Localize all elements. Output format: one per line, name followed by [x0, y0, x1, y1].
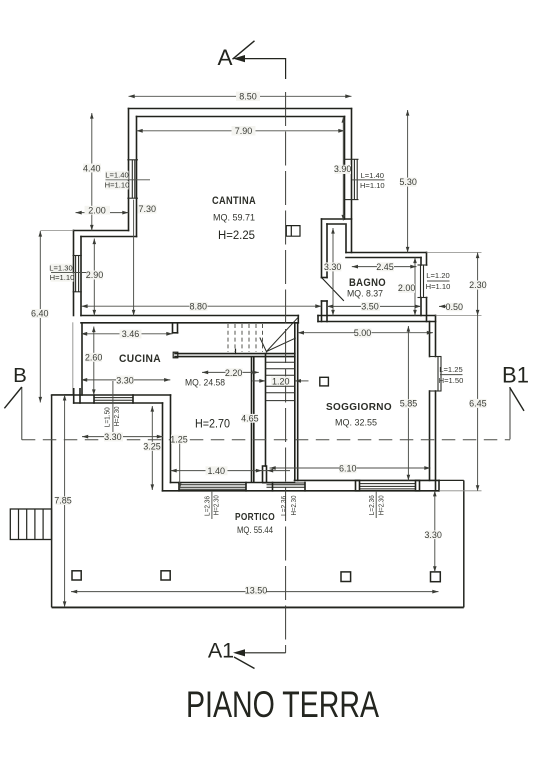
dimension 2.60 vertical: [93, 327, 95, 396]
label 2.00 bagno: [399, 284, 416, 293]
window south-west jambs: [178, 483, 180, 491]
window cantina left: leaves: [131, 160, 133, 198]
label 5.30: [400, 178, 417, 187]
dimension 2.20: [202, 371, 259, 373]
dimension 5.00 soggiorno: [298, 332, 433, 334]
section line B-B1 dashed: [22, 439, 510, 441]
window cantina right: caps: [345, 158, 359, 160]
svg-text:8.80: 8.80: [190, 302, 208, 312]
label window cantina left L: [105, 171, 129, 180]
svg-text:H=2.25: H=2.25: [218, 230, 255, 242]
label 8.80: [190, 302, 208, 311]
stair break diagonal long: [267, 318, 298, 352]
svg-text:2.30: 2.30: [469, 280, 487, 290]
svg-text:13.50: 13.50: [245, 586, 268, 596]
section marker A1: tail: [234, 657, 255, 669]
svg-text:CANTINA: CANTINA: [212, 195, 256, 207]
svg-text:5.30: 5.30: [399, 177, 417, 187]
dimension 3.30 lower: [82, 436, 163, 438]
door south jambs: [272, 483, 274, 491]
wall soggiorno south-east cap: [438, 480, 440, 490]
svg-text:3.30: 3.30: [324, 262, 342, 272]
wall cantina right inner: [344, 117, 346, 220]
svg-text:1.40: 1.40: [208, 466, 226, 476]
window cucina south jamb left: [93, 395, 95, 403]
svg-text:4.40: 4.40: [83, 163, 101, 173]
svg-text:5.85: 5.85: [400, 399, 418, 409]
svg-text:CUCINA: CUCINA: [119, 353, 161, 365]
door jamb bagno bottom: [322, 300, 328, 302]
wall cantina top inner: [137, 116, 345, 118]
svg-text:6.40: 6.40: [31, 309, 49, 319]
label 3.30 bagno: [325, 262, 342, 271]
dimension 3.30 cucina: [81, 379, 170, 381]
label 7.30: [138, 205, 157, 214]
svg-text:2.90: 2.90: [86, 270, 104, 280]
door jamb cucina south-west: [73, 389, 75, 403]
svg-text:H=1.50: H=1.50: [439, 376, 464, 385]
svg-text:7.85: 7.85: [54, 496, 72, 506]
label 4.40: [83, 164, 101, 173]
pillar 3: [341, 572, 351, 582]
window soggiorno east: caps: [429, 356, 442, 358]
wall cucina east outer: [162, 403, 164, 491]
wall bagno north outer: [346, 252, 427, 254]
dimension 1.20 stair: [253, 380, 266, 382]
svg-text:3.30: 3.30: [424, 530, 442, 540]
wall cantina left lower inner: [80, 237, 82, 316]
svg-text:4.65: 4.65: [241, 413, 259, 423]
svg-text:PORTICO: PORTICO: [235, 511, 275, 523]
svg-text:H=2.30: H=2.30: [212, 495, 221, 515]
door jamb bagno top: [322, 277, 328, 279]
leader window south 3: [375, 491, 377, 518]
svg-text:3.30: 3.30: [104, 432, 122, 442]
svg-text:MQ. 8.37: MQ. 8.37: [347, 289, 383, 300]
wall cucina south outer face: [74, 402, 163, 404]
wall cucina east inner: [170, 395, 172, 483]
wall soggiorno west line b: [297, 323, 299, 481]
label 0.50: [447, 303, 463, 312]
svg-text:2.60: 2.60: [85, 353, 103, 363]
svg-text:7.30: 7.30: [139, 204, 157, 214]
wall cantina step outer: [74, 230, 129, 232]
label 1.25: [171, 435, 187, 444]
window bagno east: caps: [418, 264, 428, 266]
door jamb cucina left: [172, 323, 174, 333]
leader cucina window labels: [112, 381, 114, 432]
svg-text:MQ. 32.55: MQ. 32.55: [335, 418, 377, 429]
wall cucina west outer faint: [72, 323, 74, 395]
svg-text:A: A: [217, 45, 232, 70]
label 6.10: [339, 464, 357, 473]
stair left edge: [265, 354, 267, 466]
svg-text:H=1.10: H=1.10: [426, 282, 451, 291]
label 3.30 portico: [427, 531, 441, 540]
witness cucina sw corner: [65, 394, 73, 396]
svg-text:H=2.70: H=2.70: [195, 418, 230, 430]
pillar 4: [431, 572, 441, 582]
svg-text:H=1.10: H=1.10: [105, 181, 130, 190]
dimension 8.80: [81, 305, 321, 307]
wall bagno east inner upper: [420, 258, 422, 266]
svg-text:H=1.10: H=1.10: [360, 181, 385, 190]
thin wall left cap: [173, 352, 178, 358]
section marker B1: riser: [509, 387, 511, 439]
label 7.85: [56, 496, 71, 505]
dimension 3.25 vertical: [151, 406, 153, 490]
wall cantina south lower face: [81, 322, 298, 324]
label 13.50: [246, 586, 267, 595]
wall bagno north-west inner: [327, 223, 345, 225]
wall cantina south upper face: [81, 315, 298, 317]
door jamb U lower: [263, 466, 267, 482]
fraction bar window cantina lower-left: [51, 272, 89, 274]
dimension 7.85 vertical: [64, 395, 66, 607]
wall cantina left lower outer: [73, 231, 75, 316]
dimension 3.30 bagno vertical: [332, 228, 334, 316]
wall cantina right outer: [351, 109, 353, 253]
svg-text:L=1.25: L=1.25: [439, 365, 462, 374]
svg-text:3.46: 3.46: [122, 329, 140, 339]
label window lower-left L: [50, 264, 73, 272]
witness line bagno ne: [427, 252, 482, 254]
dimension 2.00 bagno vertical: [414, 258, 416, 316]
label 2.00: [85, 206, 111, 215]
wall cantina south right cap: [297, 316, 299, 323]
fraction bar window cantina left: [106, 179, 151, 181]
svg-text:SOGGIORNO: SOGGIORNO: [326, 401, 392, 413]
thin wall upper face: [175, 353, 295, 355]
label 7.90: [232, 126, 256, 136]
window soggiorno south jamb left: [356, 480, 360, 490]
wall cucina south inner face: [52, 394, 171, 396]
window soggiorno south glazing: [360, 484, 416, 489]
wall bagno east outer lower: [426, 298, 428, 322]
dimension 4.40 vertical: [91, 113, 93, 231]
svg-text:3.30: 3.30: [116, 375, 134, 385]
wall bagno west outer upper: [321, 219, 323, 278]
svg-text:PIANO TERRA: PIANO TERRA: [186, 683, 379, 725]
label 2.60: [86, 353, 103, 362]
svg-text:H=2.30: H=2.30: [376, 495, 385, 515]
fraction bar window soggiorno: [440, 374, 463, 376]
dimension 13.50: [71, 591, 439, 593]
svg-text:BAGNO: BAGNO: [349, 277, 386, 289]
svg-text:1.25: 1.25: [170, 434, 188, 444]
svg-text:B1: B1: [502, 363, 529, 388]
witness line soggiorno se: [439, 490, 482, 492]
window soggiorno south jamb right: [416, 480, 420, 490]
svg-text:3.25: 3.25: [143, 442, 161, 452]
label 1.40: [206, 466, 228, 475]
wall soggiorno east inner lower: [429, 391, 431, 480]
window south-west glazing: [179, 485, 246, 489]
svg-text:6.10: 6.10: [339, 464, 357, 474]
portico left edge: [51, 395, 53, 608]
fraction bar window bagno: [427, 280, 450, 282]
svg-text:L=1.40: L=1.40: [105, 171, 128, 180]
dimension 2.30 vertical: [477, 253, 479, 316]
wall bagno west inner lower: [326, 301, 328, 322]
stair break diagonal mid: [267, 338, 296, 352]
svg-text:MQ. 24.58: MQ. 24.58: [185, 377, 225, 388]
wall south outer face: [163, 490, 440, 492]
dimension 0.50 offset: [439, 305, 449, 307]
wall south inner face west part: [171, 482, 295, 484]
wall bagno north-west outer: [322, 218, 352, 220]
label 3.90: [335, 165, 352, 174]
dimension 6.40 vertical: [39, 231, 41, 403]
wall bagno west inner upper: [326, 224, 328, 278]
dimension 6.10: [270, 467, 431, 469]
dimension 3.90 vertical: [342, 117, 344, 221]
window cantina lower-left: leaves: [75, 256, 77, 292]
section marker A: arrowhead: [233, 55, 245, 62]
section marker A: tail: [233, 41, 255, 59]
stair break diagonal short: [260, 338, 267, 353]
interior wall cucina-soggiorno line b: [253, 357, 255, 482]
window bagno east: leaves: [420, 265, 422, 298]
portico bottom edge: [52, 606, 464, 608]
window cantina right: leaves: [353, 159, 355, 199]
wall bagno north inner: [346, 257, 421, 259]
svg-text:L=1.20: L=1.20: [426, 271, 449, 280]
wall cantina left upper inner: [136, 117, 138, 237]
svg-text:5.00: 5.00: [354, 328, 372, 338]
dimension 3.50 bagno: [327, 305, 421, 307]
wall bagno south outer: [318, 315, 436, 317]
pillar 1: [72, 571, 81, 580]
svg-text:MQ. 59.71: MQ. 59.71: [213, 212, 255, 223]
external stair treads: [19, 509, 44, 540]
section marker A: corner: [237, 59, 286, 79]
jamb tick above thin wall: [235, 349, 237, 353]
wall cantina step inner: [81, 236, 137, 238]
wall bagno south left cap: [317, 316, 319, 322]
window cucina south jamb right: [132, 395, 134, 403]
svg-text:7.90: 7.90: [235, 126, 253, 136]
svg-text:L=1.40: L=1.40: [361, 171, 384, 180]
witness line bagno se: [436, 315, 482, 317]
external stair outline: [10, 509, 51, 540]
dimension 6.45 vertical: [477, 316, 479, 491]
svg-text:0.50: 0.50: [446, 302, 464, 312]
label 3.30 cucina: [116, 376, 134, 385]
portico top-right edge: [439, 479, 464, 481]
svg-text:L=1.30: L=1.30: [49, 263, 72, 272]
svg-text:MQ. 55.44: MQ. 55.44: [237, 525, 273, 536]
wall soggiorno west line a: [294, 323, 296, 481]
witness line step-left: [40, 230, 73, 232]
wall bagno stub inner: [345, 224, 347, 253]
svg-text:1.20: 1.20: [272, 376, 290, 386]
dimension 1.25 vertical: [179, 444, 181, 490]
door south glazing: [263, 483, 306, 487]
dimension 7.30 vertical: [133, 200, 135, 316]
label 3.50: [361, 302, 380, 311]
svg-text:B: B: [13, 364, 27, 387]
window cantina left: caps: [127, 159, 138, 161]
wall soggiorno south inner: [295, 479, 440, 481]
label window cantina left H: [105, 181, 129, 190]
wall bagno east outer upper: [426, 253, 428, 266]
door jamb cucina cap: [173, 332, 178, 334]
label 8.50: [236, 92, 260, 102]
label 4.65: [242, 414, 258, 423]
label 1.20: [271, 376, 290, 385]
portico top-left edge: [52, 394, 74, 396]
wall soggiorno east outer lower: [435, 391, 437, 491]
label 2.20: [226, 368, 243, 377]
dimension 5.85 vertical: [407, 326, 409, 480]
wall bagno west outer lower: [321, 301, 323, 322]
section marker A1: arrowhead: [233, 649, 245, 656]
dimension 8.50 top: [129, 95, 352, 97]
svg-text:2.20: 2.20: [225, 368, 243, 378]
wall bagno east inner lower: [420, 298, 422, 316]
dimension 2.90 vertical: [93, 239, 95, 316]
window soggiorno east: leaves: [437, 357, 439, 392]
svg-text:L=2.36: L=2.36: [367, 495, 376, 515]
label 2.45: [377, 262, 394, 271]
thin wall lower face: [175, 356, 295, 358]
window cantina lower-left: caps: [73, 255, 82, 257]
wall soggiorno east inner upper: [429, 322, 431, 357]
label 5.85: [402, 399, 417, 408]
svg-text:L=2.36: L=2.36: [202, 496, 211, 516]
wall soggiorno east outer upper: [435, 316, 437, 357]
section marker B: riser: [21, 387, 23, 440]
column soggiorno: [320, 377, 329, 386]
svg-text:3.90: 3.90: [334, 164, 352, 174]
stair lower flight treads: [266, 362, 295, 400]
dimension 1.40 door: [171, 470, 291, 472]
label 3.30 lower: [104, 432, 123, 441]
label 3.25: [144, 442, 161, 451]
svg-text:L=1.50: L=1.50: [102, 407, 111, 427]
door jamb cucina right: [177, 323, 179, 333]
dimension 5.30 vertical: [407, 110, 409, 253]
section marker A1: corner: [237, 652, 286, 654]
svg-text:2.00: 2.00: [398, 283, 416, 293]
wall cantina top outer: [129, 108, 352, 110]
stair upper flight dashed treads: [228, 324, 263, 352]
pillar 2: [161, 571, 170, 580]
label 2.90: [86, 271, 103, 280]
wall cucina west inner: [81, 323, 83, 395]
dimension 3.46: [81, 333, 173, 335]
wall cantina left upper outer: [128, 109, 130, 231]
label 6.40: [32, 309, 49, 318]
door swing bagno: [322, 278, 344, 301]
svg-text:H=1.10: H=1.10: [50, 273, 75, 282]
fraction bar window cantina right: [352, 179, 385, 181]
label window lower-left H: [51, 273, 74, 281]
svg-text:6.45: 6.45: [469, 398, 487, 408]
label 3.46: [120, 330, 142, 339]
section line A-A vertical: [285, 92, 287, 653]
leader window south 1: [211, 491, 213, 519]
chimney box: [286, 226, 300, 237]
svg-text:H=2.30: H=2.30: [289, 496, 298, 516]
svg-text:8.50: 8.50: [239, 92, 257, 102]
svg-text:2.45: 2.45: [376, 262, 394, 272]
dimension 3.30 portico vertical: [434, 491, 436, 572]
svg-text:3.50: 3.50: [361, 302, 379, 312]
section marker B: tail: [4, 387, 21, 408]
portico right edge: [463, 480, 465, 607]
label 2.30: [470, 281, 486, 290]
svg-text:L=2.36: L=2.36: [279, 496, 288, 516]
dimension 7.90: [137, 130, 345, 132]
svg-text:2.00: 2.00: [88, 205, 106, 215]
label 6.45: [470, 399, 487, 408]
label 5.00: [355, 328, 372, 337]
svg-text:A1: A1: [208, 638, 234, 662]
dimension 2.00 left: [76, 212, 129, 214]
wall bagno south inner: [318, 321, 436, 323]
dimension 2.45 bagno: [352, 266, 417, 268]
svg-text:H=2.30: H=2.30: [112, 406, 121, 426]
window cucina south glazing: [94, 397, 133, 399]
section marker B1: tail: [510, 387, 524, 411]
interior wall cucina-soggiorno line a: [251, 357, 253, 482]
